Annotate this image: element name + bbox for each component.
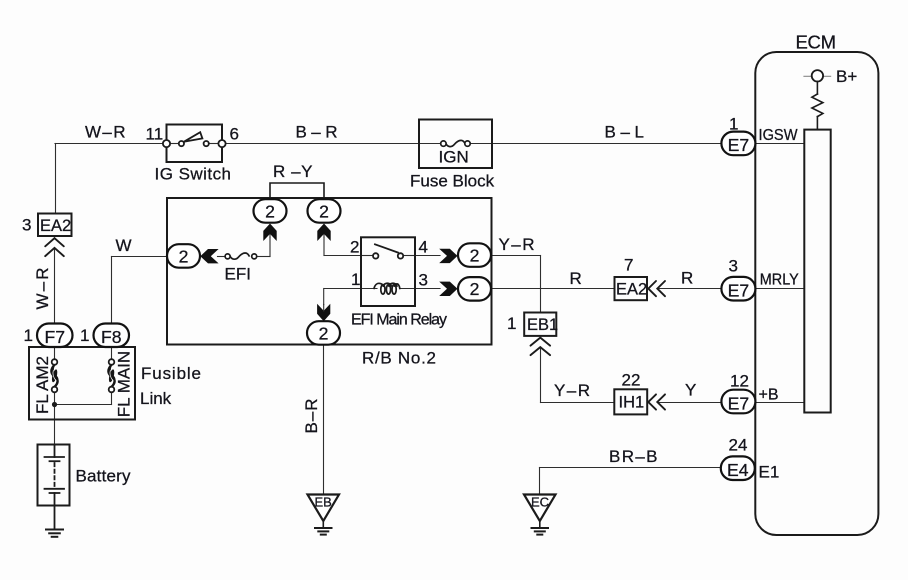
svg-text:IH1: IH1: [619, 394, 645, 412]
svg-text:7: 7: [624, 256, 633, 275]
svg-text:Y–R: Y–R: [554, 381, 590, 400]
svg-text:3: 3: [729, 257, 738, 276]
svg-text:+B: +B: [759, 387, 779, 404]
svg-text:Y: Y: [685, 381, 696, 400]
svg-text:Link: Link: [140, 389, 172, 408]
svg-text:F8: F8: [101, 327, 122, 347]
svg-text:4: 4: [419, 238, 428, 257]
svg-text:F7: F7: [45, 327, 66, 347]
svg-text:11: 11: [146, 125, 164, 144]
svg-text:R –Y: R –Y: [273, 162, 313, 181]
svg-text:EA2: EA2: [40, 217, 71, 235]
svg-text:22: 22: [622, 371, 641, 390]
svg-text:E7: E7: [728, 393, 750, 413]
svg-text:B–R: B–R: [302, 399, 321, 434]
svg-text:1: 1: [351, 270, 360, 289]
svg-text:1: 1: [729, 115, 738, 134]
svg-text:2: 2: [470, 245, 480, 265]
svg-text:FL MAIN: FL MAIN: [115, 351, 134, 417]
svg-text:2: 2: [319, 323, 329, 343]
svg-text:2: 2: [470, 279, 480, 299]
svg-text:R: R: [570, 269, 582, 288]
svg-text:3: 3: [22, 216, 31, 235]
svg-text:W–R: W–R: [85, 123, 126, 142]
svg-text:2: 2: [319, 201, 329, 221]
svg-text:1: 1: [24, 326, 33, 345]
svg-text:W–R: W–R: [33, 268, 52, 310]
svg-text:IG Switch: IG Switch: [155, 165, 232, 184]
svg-text:MRLY: MRLY: [760, 272, 799, 289]
svg-text:1: 1: [80, 326, 89, 345]
svg-text:E1: E1: [759, 463, 780, 482]
svg-text:EB1: EB1: [527, 316, 558, 334]
svg-text:B–R: B–R: [296, 123, 338, 142]
svg-text:6: 6: [230, 125, 239, 144]
svg-text:IGSW: IGSW: [759, 127, 799, 144]
svg-text:BR–B: BR–B: [609, 447, 658, 466]
svg-text:24: 24: [729, 436, 748, 455]
svg-text:EB: EB: [315, 495, 332, 510]
svg-text:W: W: [116, 236, 132, 255]
svg-text:EA2: EA2: [616, 281, 647, 299]
svg-text:Fuse Block: Fuse Block: [410, 172, 495, 191]
svg-text:ECM: ECM: [796, 32, 837, 53]
svg-text:2: 2: [265, 201, 275, 221]
svg-text:R/B No.2: R/B No.2: [362, 349, 436, 368]
svg-text:Battery: Battery: [76, 467, 132, 486]
svg-text:EFI Main Relay: EFI Main Relay: [351, 312, 447, 329]
svg-text:B+: B+: [836, 67, 857, 86]
svg-text:Fusible: Fusible: [141, 364, 201, 383]
svg-text:E7: E7: [728, 281, 750, 301]
svg-text:3: 3: [419, 271, 428, 290]
svg-text:IGN: IGN: [439, 148, 469, 167]
svg-text:E4: E4: [727, 460, 749, 480]
svg-text:EC: EC: [531, 495, 549, 510]
svg-text:2: 2: [179, 246, 189, 266]
svg-text:FL AM2: FL AM2: [33, 356, 52, 414]
svg-text:Y–R: Y–R: [499, 235, 535, 254]
svg-text:R: R: [681, 269, 693, 288]
svg-text:2: 2: [350, 238, 359, 257]
svg-text:B–L: B–L: [605, 123, 645, 142]
svg-text:E7: E7: [728, 135, 750, 155]
svg-text:1: 1: [507, 314, 516, 333]
svg-text:12: 12: [730, 372, 749, 391]
svg-text:EFI: EFI: [225, 265, 251, 284]
